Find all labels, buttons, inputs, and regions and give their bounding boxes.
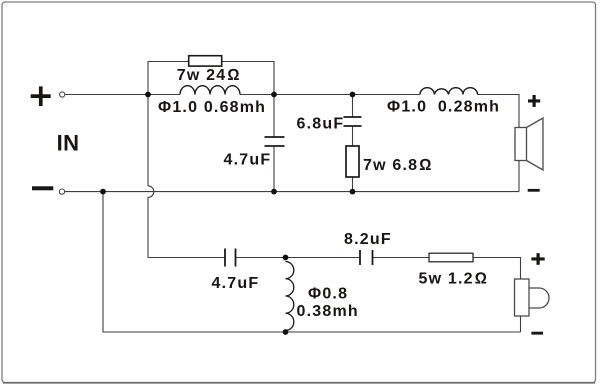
wire: + input to node A (65, 94, 180, 96)
svg-text:0.38mh: 0.38mh (297, 303, 359, 320)
capacitor C3 4.7uF plates (225, 249, 236, 267)
svg-text:7w 6.8Ω: 7w 6.8Ω (363, 157, 433, 174)
node A2 junction dot (271, 92, 277, 98)
inductor L3 0.38mh vertical coil (286, 262, 294, 331)
inductor L1 0.68mh (180, 86, 240, 95)
junction dot coil bottom (283, 329, 289, 335)
node C junction dot coil top (283, 255, 289, 261)
wire: R3 to tweeter top (473, 258, 521, 280)
inductor L2 0.28mh (420, 88, 478, 95)
svg-text:5w 1.2Ω: 5w 1.2Ω (419, 270, 489, 287)
wire: node A2 down to capacitor C1 (273, 95, 275, 138)
svg-text:IN: IN (57, 130, 80, 155)
wire: inductor L1 to node B segment (240, 94, 420, 96)
capacitor C1 4.7uF plates (265, 137, 285, 146)
junction dot R2 bottom (350, 189, 356, 195)
svg-text:Φ1.0 0.68mh: Φ1.0 0.68mh (158, 99, 266, 116)
svg-text:7w 24Ω: 7w 24Ω (177, 67, 241, 84)
svg-text:8.2uF: 8.2uF (344, 231, 392, 248)
wire: resistor R1 parallel branch (148, 62, 189, 95)
resistor R3 5w 1.2ohm box (429, 253, 473, 262)
resistor R2 7w 6.8ohm box (346, 146, 359, 177)
svg-text:4.7uF: 4.7uF (224, 151, 272, 168)
terminal + input circle (60, 92, 65, 97)
svg-text:6.8uF: 6.8uF (297, 115, 345, 132)
wire: C4 to resistor R3 (373, 257, 430, 259)
capacitor C2 6.8uF plates (344, 117, 362, 126)
capacitor C4 8.2uF plates (360, 250, 373, 265)
svg-text:Φ0.8: Φ0.8 (308, 285, 348, 302)
wire: C1 to minus rail (273, 146, 275, 192)
wire: C3 to coil node C (236, 257, 361, 259)
minus sign woofer (528, 189, 540, 192)
svg-text:Φ1.0 0.28mh: Φ1.0 0.28mh (387, 99, 500, 116)
node A junction dot (145, 92, 151, 98)
wire: node B down to capacitor C2 (352, 95, 354, 118)
wire: L2 to woofer top corner (478, 95, 520, 128)
minus sign tweeter (531, 332, 543, 335)
wire: high-pass tap down with hop over minus rail (148, 95, 225, 258)
junction dot C1 bottom (271, 189, 277, 195)
wire: minus rail (65, 191, 519, 193)
wire: C2 to resistor R2 (352, 126, 354, 146)
woofer speaker symbol (515, 118, 543, 170)
plus sign tweeter (531, 257, 544, 260)
plus sign input (31, 94, 51, 98)
wire: R1 right side down to node A2 (222, 62, 275, 95)
wire: woofer bottom lead (518, 161, 520, 192)
minus sign input (32, 186, 53, 190)
wire: R2 to minus rail (352, 177, 354, 192)
terminal - input circle (59, 189, 64, 194)
wire: tweeter bottom lead (520, 316, 522, 332)
plus sign woofer (528, 99, 540, 102)
tweeter speaker symbol (515, 279, 550, 316)
junction dot minus rail tap (100, 189, 106, 195)
node B junction dot (350, 92, 356, 98)
wire: bottom return rail (103, 192, 521, 332)
resistor R1 7w 24ohm box (189, 56, 222, 66)
svg-text:4.7uF: 4.7uF (212, 275, 260, 292)
